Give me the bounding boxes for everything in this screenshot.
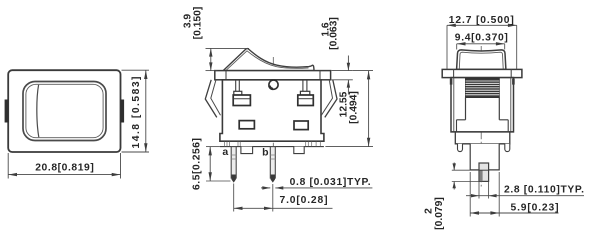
body (end view) bbox=[451, 78, 514, 132]
opening wall right bbox=[498, 98, 500, 120]
right contact post collar bbox=[300, 91, 309, 95]
flange (panel lip) bbox=[215, 71, 331, 80]
dim 5.9 dimension line bbox=[470, 212, 558, 214]
body inner wall left bbox=[453, 78, 455, 132]
dim 7.0 dimension line bbox=[234, 207, 333, 209]
dimension line 14.8 bbox=[145, 70, 147, 152]
base strip bottom line bbox=[220, 146, 324, 148]
svg-text:[0.150]: [0.150] bbox=[192, 7, 203, 40]
dim 1.6 extension line bottom bbox=[332, 79, 353, 81]
dim 12.7 dimension line bbox=[447, 24, 517, 26]
svg-text:20.8[0.819]: 20.8[0.819] bbox=[35, 163, 94, 174]
centerline (vertical dash-dot) bbox=[480, 46, 482, 188]
svg-text:2: 2 bbox=[423, 208, 434, 214]
left contact post head bbox=[233, 95, 250, 106]
svg-text:0.8 [0.031]TYP.: 0.8 [0.031]TYP. bbox=[290, 177, 371, 188]
left lower block bbox=[239, 121, 254, 129]
svg-text:9.4[0.370]: 9.4[0.370] bbox=[455, 32, 508, 43]
dim 2 extension line bottom bbox=[452, 181, 479, 183]
dim 3.9 extension line top (rocker peak level) bbox=[206, 47, 250, 49]
right mounting tab bbox=[120, 100, 124, 123]
right snap latch bbox=[325, 80, 337, 118]
latch cross-section left bbox=[450, 79, 453, 85]
lower base section bbox=[455, 132, 510, 144]
bottom shoulder line bbox=[451, 131, 514, 133]
dim 7.0 extension line from pin b bbox=[272, 184, 274, 212]
base strip ticks bbox=[223, 142, 225, 147]
step right bbox=[499, 120, 508, 132]
extension line bottom-left bbox=[7, 153, 9, 179]
left foot bbox=[241, 147, 253, 154]
dim 12.55 dimension line bbox=[368, 71, 370, 147]
terminal boss bbox=[470, 144, 499, 170]
dim 9.4 extension lines bbox=[456, 44, 458, 50]
rocker lever profile bbox=[223, 49, 314, 71]
right contact post stem bbox=[302, 80, 304, 92]
svg-text:5.9[0.23]: 5.9[0.23] bbox=[511, 202, 559, 213]
left contact post collar bbox=[234, 91, 242, 95]
centerline (vertical dash-dot) bbox=[272, 57, 274, 163]
extension line bottom-right bbox=[120, 153, 122, 179]
rocker face dividing line bbox=[37, 85, 39, 137]
pivot circle bbox=[269, 80, 278, 89]
terminal pin a bbox=[231, 147, 236, 179]
svg-text:14.8 [0.583]: 14.8 [0.583] bbox=[131, 77, 142, 149]
body inner wall right bbox=[510, 78, 512, 132]
rocker ribs (hatch block) bbox=[466, 78, 500, 97]
dim 1.6 arrows (outside) bbox=[347, 56, 349, 71]
rocker end profile bbox=[457, 50, 506, 70]
dim 0.8 arrows at pin b bbox=[261, 187, 270, 189]
terminal pin b bbox=[270, 147, 275, 179]
flange (end view) bbox=[442, 69, 522, 77]
svg-text:[0.079]: [0.079] bbox=[434, 197, 445, 230]
right lower block bbox=[294, 121, 308, 130]
dim 12.55 extension line top bbox=[353, 70, 373, 72]
dim 6.5 extension line bottom bbox=[206, 180, 231, 182]
dim 2 extension line top bbox=[452, 169, 479, 171]
terminal pin (end view) bbox=[479, 163, 489, 181]
dim 9.4 dimension line bbox=[457, 43, 505, 45]
right foot bbox=[294, 147, 304, 154]
opening wall left bbox=[465, 98, 467, 120]
dim 12.55 extension line bottom bbox=[325, 146, 373, 148]
left contact post stem bbox=[235, 80, 237, 92]
svg-text:b: b bbox=[262, 147, 268, 159]
switch body bbox=[220, 80, 324, 141]
dim 7.0 extension line from pin a bbox=[233, 184, 235, 212]
dim 2.8 pin extension lines bbox=[478, 182, 480, 199]
flange inner line left bbox=[225, 71, 227, 80]
dim 2 arrows (outside) bbox=[453, 163, 455, 171]
right nub bbox=[505, 144, 510, 152]
front view bezel bbox=[8, 70, 120, 152]
dim 6.5 dimension line bbox=[209, 147, 211, 181]
latch cross-section right bbox=[512, 79, 515, 85]
svg-text:2.8 [0.110]TYP.: 2.8 [0.110]TYP. bbox=[504, 185, 584, 196]
left mounting tab bbox=[5, 100, 9, 123]
flange inner line right bbox=[319, 71, 321, 80]
svg-text:12.7 [0.500]: 12.7 [0.500] bbox=[449, 15, 514, 26]
dim 1.6 extension line top bbox=[332, 70, 353, 72]
dim 3.9 dimension line bbox=[210, 48, 212, 70]
svg-text:7.0[0.28]: 7.0[0.28] bbox=[280, 195, 328, 206]
dim 3.9 extension line bottom (flange top level) bbox=[206, 70, 218, 72]
extension line right-bottom bbox=[122, 151, 150, 153]
rocker button inner outline bbox=[26, 84, 103, 137]
svg-text:[0.063]: [0.063] bbox=[329, 17, 340, 50]
rocker lever inner line bbox=[226, 51, 309, 71]
right contact post head bbox=[298, 95, 314, 106]
svg-text:6.5[0.256]: 6.5[0.256] bbox=[192, 138, 203, 190]
extension line right-top bbox=[122, 69, 150, 71]
dimension line 20.8 bbox=[8, 174, 120, 176]
dim 12.7 extension lines bbox=[446, 25, 448, 69]
dim 2.8 leader line with arrows bbox=[466, 195, 584, 197]
step left bbox=[457, 120, 466, 132]
dim 5.9 extension lines bbox=[469, 172, 471, 217]
dim 6.5 extension line top bbox=[206, 146, 220, 148]
rocker button outer outline bbox=[23, 82, 106, 141]
svg-text:a: a bbox=[222, 146, 228, 158]
left nub bbox=[458, 144, 463, 152]
flange inner line right bbox=[510, 69, 512, 77]
rocker end inner line bbox=[459, 52, 503, 68]
flange inner line left bbox=[453, 69, 455, 77]
svg-text:[0.494]: [0.494] bbox=[349, 91, 360, 124]
left snap latch bbox=[205, 80, 217, 118]
